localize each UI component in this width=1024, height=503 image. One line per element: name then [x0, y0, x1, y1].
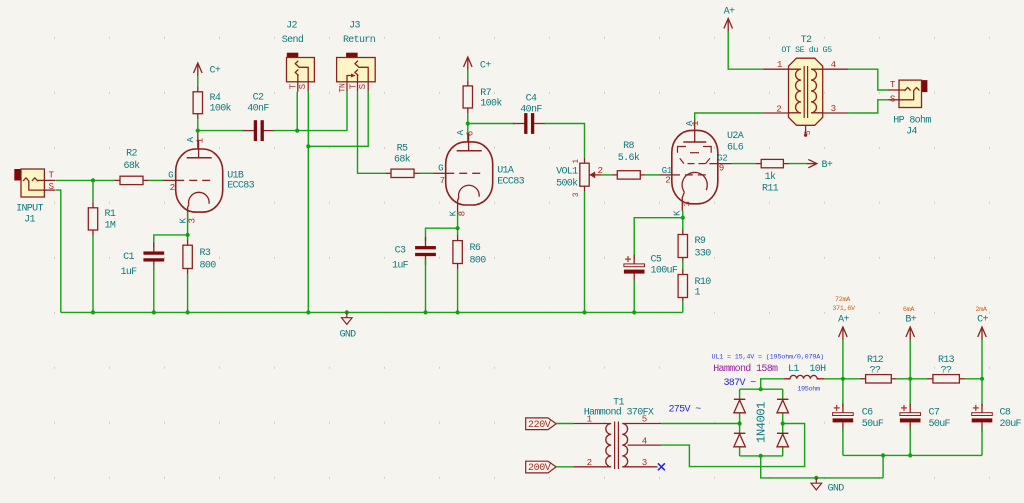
node bridge DC-: [759, 454, 763, 458]
wire 220V to T1 pin 1: [556, 423, 573, 425]
svg-text:R6: R6: [470, 243, 481, 254]
node R7/C4/U1A plate: [466, 121, 470, 125]
wire rail to C8: [981, 379, 983, 407]
svg-text:3: 3: [831, 103, 836, 114]
svg-text:B+: B+: [905, 314, 916, 325]
wire C+ riser: [981, 340, 983, 379]
svg-text:Send: Send: [282, 34, 304, 46]
wire VOL1 wiper to R8: [601, 174, 612, 176]
wire bridge right top: [782, 389, 784, 400]
junction filter bus/GND riser: [881, 453, 885, 457]
hierarchical label 200V: [526, 461, 557, 474]
wire bridge bottom: [740, 455, 783, 457]
svg-text:371,6V: 371,6V: [832, 305, 856, 313]
wire rail to C6: [842, 379, 844, 407]
svg-text:K: K: [671, 210, 682, 216]
node R4/C2/U1B plate: [196, 129, 200, 133]
wire U2A G2 to R11: [732, 163, 756, 165]
svg-text:1uF: 1uF: [120, 267, 137, 278]
svg-text:S: S: [890, 93, 896, 104]
resistor R5 68k: [386, 144, 420, 178]
svg-text:6L6: 6L6: [727, 142, 744, 153]
wire J1.T to R2: [56, 179, 115, 181]
svg-text:2: 2: [776, 104, 781, 115]
svg-text:1: 1: [690, 120, 701, 126]
connector J1 INPUT: [14, 169, 55, 226]
wire R12 to R13: [897, 378, 928, 380]
svg-text:3: 3: [681, 201, 692, 206]
wire R10 to ground bus: [682, 301, 684, 312]
svg-text:40nF: 40nF: [247, 104, 269, 115]
svg-text:5.6k: 5.6k: [618, 152, 640, 164]
svg-text:C5: C5: [651, 255, 662, 266]
svg-text:4: 4: [831, 59, 837, 70]
capacitor C3 1uF: [392, 237, 436, 271]
svg-text:50uF: 50uF: [862, 419, 884, 430]
svg-text:3: 3: [573, 192, 581, 197]
junction R6/ground bus: [456, 310, 460, 314]
diode D4 1N4001: [777, 432, 789, 434]
svg-text:GND: GND: [828, 484, 845, 495]
svg-text:R3: R3: [200, 248, 211, 259]
wire node to C4: [468, 123, 515, 125]
wire T2 pin 3 to J4.S: [848, 100, 888, 113]
node C2/J2.T: [295, 129, 299, 133]
svg-text:1: 1: [777, 59, 783, 70]
wire U1A cathode to R6: [457, 212, 459, 236]
wire junction to R1: [92, 180, 94, 202]
svg-text:HP 8ohm: HP 8ohm: [893, 115, 931, 127]
wire VOL1 to ground bus: [584, 192, 586, 313]
node C+/C8: [980, 377, 984, 381]
wire R7 to plate node: [467, 114, 469, 134]
wire C2 to J3.TN: [274, 92, 347, 131]
diode D2 1N4001: [734, 432, 746, 434]
wire filter ground bus: [843, 454, 982, 456]
op-amp? no: vacuum tube U1B ECC83 triode: [163, 136, 255, 223]
node cathode/C1/R3: [186, 233, 190, 237]
vacuum tube U1A ECC83 triode: [433, 129, 525, 216]
svg-text:C7: C7: [929, 408, 940, 419]
U1B plate pin: [197, 134, 199, 150]
wire J2.T riser: [296, 92, 298, 131]
node bridge DC+: [759, 387, 763, 391]
capacitor C5 100uF (polarized): [624, 255, 678, 283]
svg-text:5: 5: [805, 130, 813, 135]
svg-text:S: S: [357, 83, 368, 89]
wire R8 to U2A grid: [646, 174, 660, 176]
wire node to C2: [198, 130, 244, 132]
svg-text:800: 800: [200, 261, 217, 272]
wire U2A plate to T2 pin 2: [695, 113, 763, 121]
svg-text:R9: R9: [695, 236, 706, 247]
svg-text:C1: C1: [123, 252, 134, 263]
capacitor C7 50uF (polarized): [900, 379, 951, 432]
svg-text:R4: R4: [210, 93, 221, 104]
svg-text:1M: 1M: [105, 221, 116, 232]
svg-text:J3: J3: [349, 21, 360, 32]
wire J2.S riser to ground bus: [307, 92, 309, 313]
resistor R4 100k: [193, 86, 231, 119]
connector J4 HP 8ohm: [888, 79, 931, 137]
svg-text:2: 2: [170, 182, 175, 193]
svg-text:2mA: 2mA: [975, 306, 987, 314]
junction GND stub: [345, 310, 349, 314]
wire R2 to U1B grid: [149, 179, 164, 181]
svg-text:100uF: 100uF: [651, 266, 678, 277]
svg-text:B+: B+: [822, 160, 833, 171]
node cathode/C5/R9: [681, 216, 685, 220]
wire node to C5: [634, 218, 683, 259]
junction R3/ground bus: [186, 310, 190, 314]
no-connect X on T1 pin 3: [658, 463, 665, 470]
power symbol B+: [807, 159, 833, 171]
resistor R6 800: [453, 235, 486, 269]
hierarchical label 220V: [526, 418, 557, 431]
svg-text:20uF: 20uF: [1000, 419, 1022, 430]
wire R6 to ground bus: [457, 269, 459, 312]
svg-text:J1: J1: [24, 215, 35, 226]
svg-text:C+: C+: [480, 60, 491, 71]
transformer T2 OT SE du G5: [763, 35, 848, 137]
wire U2A cathode to R9: [682, 211, 684, 230]
junction VOL1/ground bus: [582, 310, 586, 314]
svg-text:40nF: 40nF: [520, 105, 542, 116]
svg-text:T: T: [49, 170, 55, 181]
capacitor C6 50uF (polarized): [833, 379, 884, 432]
svg-text:J4: J4: [906, 127, 917, 138]
power symbol C+ (stage 1): [194, 63, 221, 77]
wire T1 pin 5 to bridge: [661, 423, 739, 425]
resistor R1 1M: [88, 202, 116, 235]
svg-text:2: 2: [665, 174, 670, 185]
svg-text:R2: R2: [126, 149, 137, 160]
wire node to C1: [154, 235, 188, 248]
svg-text:1: 1: [195, 137, 206, 143]
svg-text:9: 9: [719, 163, 724, 174]
node bridge AC right: [781, 421, 785, 425]
svg-text:C+: C+: [210, 66, 221, 77]
power symbol A+ (PSU): [832, 296, 856, 340]
wire bridge top: [740, 388, 783, 390]
vacuum tube U2A 6L6 pentode: [660, 118, 744, 216]
svg-text:U1A: U1A: [497, 165, 514, 176]
svg-text:S: S: [297, 83, 308, 89]
svg-text:200V: 200V: [528, 463, 551, 474]
junction C1/ground bus: [152, 310, 156, 314]
svg-text:6: 6: [465, 131, 476, 136]
wire R1 to ground bus: [92, 236, 94, 313]
svg-text:C+: C+: [977, 314, 988, 325]
node A+/C6: [841, 377, 845, 381]
svg-text:1: 1: [695, 288, 701, 299]
capacitor C2 40nF: [243, 93, 275, 142]
U1A plate pin: [467, 134, 469, 143]
junction J2.S/ground bus: [306, 310, 310, 314]
wire C3 to ground bus: [425, 259, 427, 312]
svg-text:L1 10H: L1 10H: [788, 364, 826, 375]
svg-text:R10: R10: [695, 277, 712, 288]
svg-text:7: 7: [440, 175, 445, 186]
svg-text:R13: R13: [938, 355, 955, 366]
wire U1B cathode to R3: [187, 212, 189, 240]
ground symbol GND (PSU): [811, 478, 844, 495]
diode D1 1N4001: [734, 398, 746, 400]
wire main ground bus: [61, 311, 683, 313]
svg-text:1N4001: 1N4001: [755, 402, 769, 443]
svg-text:1uF: 1uF: [392, 261, 409, 272]
svg-text:OT SE du G5: OT SE du G5: [781, 45, 832, 55]
svg-text:195ohm: 195ohm: [797, 386, 820, 394]
svg-text:220V: 220V: [528, 420, 551, 431]
wire bridge right middle: [782, 413, 784, 434]
svg-text:C3: C3: [395, 246, 406, 257]
svg-text:C8: C8: [1000, 408, 1011, 419]
resistor R11 1k: [756, 159, 789, 194]
power symbol C+ (PSU): [975, 306, 988, 340]
wire C7 to filter bus: [909, 428, 911, 455]
svg-text:R7: R7: [480, 88, 491, 99]
svg-text:3: 3: [642, 457, 647, 468]
wire T1 pin 4 to bridge right: [661, 424, 804, 467]
resistor R12 ??: [860, 355, 897, 383]
svg-text:UL1 = 15,4V = (195ohm/0,079A): UL1 = 15,4V = (195ohm/0,079A): [712, 354, 825, 362]
wire filter bus to GND line: [882, 455, 884, 478]
svg-text:??: ??: [870, 366, 881, 377]
svg-text:R1: R1: [105, 209, 116, 220]
svg-text:330: 330: [695, 249, 712, 260]
wire bridge left bottom: [739, 446, 741, 456]
diode D3 1N4001: [777, 398, 789, 400]
svg-text:100k: 100k: [480, 97, 502, 109]
node J2.S/J3.S: [306, 144, 310, 148]
wire C4 to VOL1: [544, 124, 584, 158]
junction C7/filter bus: [908, 453, 912, 457]
resistor R7 100k: [463, 80, 502, 113]
svg-text:800: 800: [470, 256, 487, 267]
power symbol A+ (top): [724, 7, 735, 32]
wire R5 to U1A grid: [420, 172, 434, 174]
wire R11 to B+: [789, 163, 808, 165]
svg-text:Hammond 370FX: Hammond 370FX: [584, 407, 654, 419]
capacitor C4 40nF: [513, 94, 545, 134]
wire B+ riser: [909, 340, 911, 379]
wire R3 to ground bus: [187, 274, 189, 312]
svg-text:68k: 68k: [123, 160, 140, 172]
svg-text:U2A: U2A: [727, 131, 744, 142]
svg-text:INPUT: INPUT: [16, 204, 43, 215]
wire 200V to T1 pin 2: [556, 466, 573, 468]
resistor R13 ??: [927, 355, 965, 383]
svg-text:G: G: [168, 169, 173, 180]
svg-text:R12: R12: [867, 355, 884, 366]
svg-text:8: 8: [457, 211, 468, 216]
wire L1 to R12: [825, 378, 861, 380]
power symbol B+ (PSU): [903, 306, 917, 340]
junction R1/ground bus: [91, 310, 95, 314]
wire bridge left top: [739, 389, 741, 400]
wire J3.T to R5: [358, 92, 386, 174]
capacitor C8 20uF (polarized): [972, 379, 1022, 432]
svg-text:3: 3: [187, 218, 198, 223]
power symbol C+ (stage 2): [464, 57, 492, 71]
svg-text:4: 4: [642, 436, 648, 447]
svg-text:Return: Return: [343, 35, 376, 46]
svg-text:R11: R11: [762, 184, 779, 195]
svg-text:S: S: [49, 181, 55, 192]
junction C3/ground bus: [423, 310, 427, 314]
transformer T1 Hammond 370FX: [573, 398, 661, 470]
wire C6 to filter bus: [842, 428, 844, 455]
wire bridge DC- to filter ground: [761, 456, 883, 478]
svg-text:C6: C6: [862, 408, 873, 419]
wire bridge left middle: [739, 413, 741, 434]
wire T2 pin 4 to J4.T: [848, 69, 888, 90]
svg-text:TN: TN: [339, 83, 348, 92]
svg-text:6mA: 6mA: [903, 306, 915, 314]
resistor R8 5.6k: [612, 141, 646, 179]
connector J3 Return: [337, 21, 376, 93]
svg-text:100k: 100k: [210, 102, 232, 114]
wire bridge DC+ to L1: [761, 379, 784, 389]
svg-text:275V ~: 275V ~: [668, 405, 701, 416]
node cathode/C3/R6: [456, 226, 460, 230]
wire node to C3: [426, 228, 458, 241]
bridge rectifier 1N4001 x4: [734, 389, 789, 456]
svg-text:68k: 68k: [394, 154, 411, 166]
svg-text:R5: R5: [397, 144, 408, 155]
svg-text:500k: 500k: [556, 178, 578, 190]
node J1.T/R1/R2 junction: [91, 178, 95, 182]
wire C+ to R7: [467, 70, 469, 81]
wire R13 to C+ node: [965, 378, 982, 380]
wire J1.S down to ground bus: [56, 190, 61, 312]
svg-text:T: T: [890, 79, 896, 90]
junction C5/ground bus: [632, 310, 636, 314]
wire C8 to filter bus: [981, 428, 983, 455]
svg-text:A+: A+: [838, 314, 849, 325]
svg-text:50uF: 50uF: [929, 419, 951, 430]
wire A+ riser: [842, 340, 844, 379]
svg-text:1: 1: [573, 159, 581, 164]
svg-text:1k: 1k: [765, 171, 776, 183]
resistor R10 1: [678, 269, 711, 303]
svg-text:G: G: [438, 162, 443, 173]
svg-text:??: ??: [941, 366, 952, 377]
ground symbol GND (main): [339, 310, 356, 340]
svg-text:GND: GND: [339, 330, 356, 341]
wire R4 to plate node: [197, 119, 199, 133]
inductor L1: [784, 375, 825, 393]
wire C+ to R4: [197, 76, 199, 87]
svg-text:VOL1: VOL1: [556, 167, 578, 178]
potentiometer VOL1 500k: [556, 158, 603, 197]
svg-text:C4: C4: [526, 94, 537, 105]
capacitor C1 1uF: [120, 242, 164, 278]
wire A+ to T2 pin 1: [728, 31, 763, 69]
wire bridge right bottom: [782, 446, 784, 456]
svg-text:Hammond 158m: Hammond 158m: [713, 363, 778, 375]
svg-text:A+: A+: [724, 7, 735, 18]
wire rail to C7: [909, 379, 911, 407]
resistor R3 800: [183, 240, 216, 274]
svg-text:387V −: 387V −: [723, 378, 756, 389]
svg-text:C2: C2: [253, 93, 264, 104]
wire R9 to R10: [682, 261, 684, 270]
svg-text:ECC83: ECC83: [227, 181, 254, 192]
junction PSU GND: [814, 476, 818, 480]
svg-text:2: 2: [587, 457, 592, 468]
connector J2 Send: [282, 21, 315, 92]
svg-text:72mA: 72mA: [835, 296, 851, 304]
wire C5 to ground bus: [633, 279, 635, 312]
svg-text:R8: R8: [623, 141, 634, 152]
svg-text:J2: J2: [286, 21, 297, 32]
node bridge AC left: [738, 421, 742, 425]
svg-text:ECC83: ECC83: [497, 176, 524, 187]
wire C1 to ground bus: [153, 266, 155, 313]
wire J3.S to J2.S: [308, 92, 368, 147]
node B+/C7: [908, 377, 912, 381]
resistor R2 68k: [115, 149, 149, 185]
resistor R9 330: [678, 229, 711, 263]
